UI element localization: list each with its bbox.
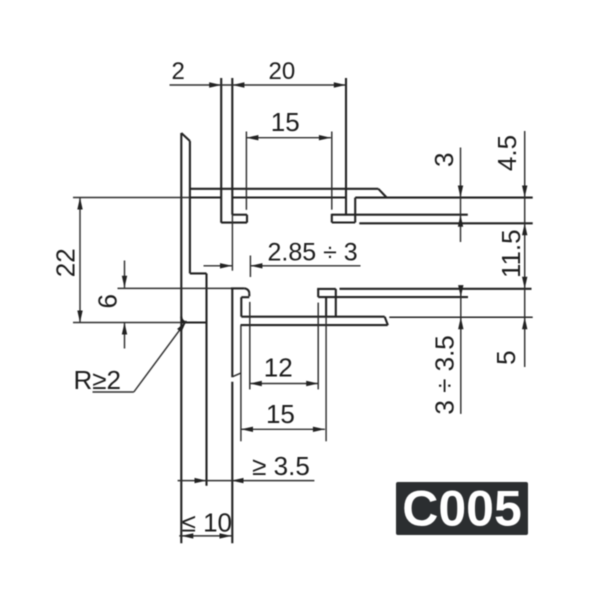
- svg-text:6: 6: [92, 294, 122, 308]
- svg-text:20: 20: [269, 58, 296, 85]
- svg-text:15: 15: [271, 107, 300, 137]
- svg-text:R≥2: R≥2: [74, 365, 122, 395]
- svg-text:3: 3: [429, 153, 459, 167]
- svg-text:12: 12: [264, 353, 293, 383]
- svg-text:≤ 10: ≤ 10: [182, 508, 232, 538]
- svg-text:2: 2: [172, 58, 185, 85]
- svg-text:22: 22: [50, 248, 80, 277]
- svg-text:≥ 3.5: ≥ 3.5: [252, 451, 310, 481]
- svg-text:3 ÷ 3.5: 3 ÷ 3.5: [429, 335, 459, 414]
- svg-text:5: 5: [491, 350, 521, 364]
- svg-text:C005: C005: [402, 481, 522, 537]
- svg-text:2.85 ÷ 3: 2.85 ÷ 3: [268, 239, 358, 267]
- svg-text:4.5: 4.5: [492, 135, 522, 171]
- svg-text:15: 15: [266, 399, 295, 429]
- svg-text:11.5: 11.5: [496, 229, 526, 278]
